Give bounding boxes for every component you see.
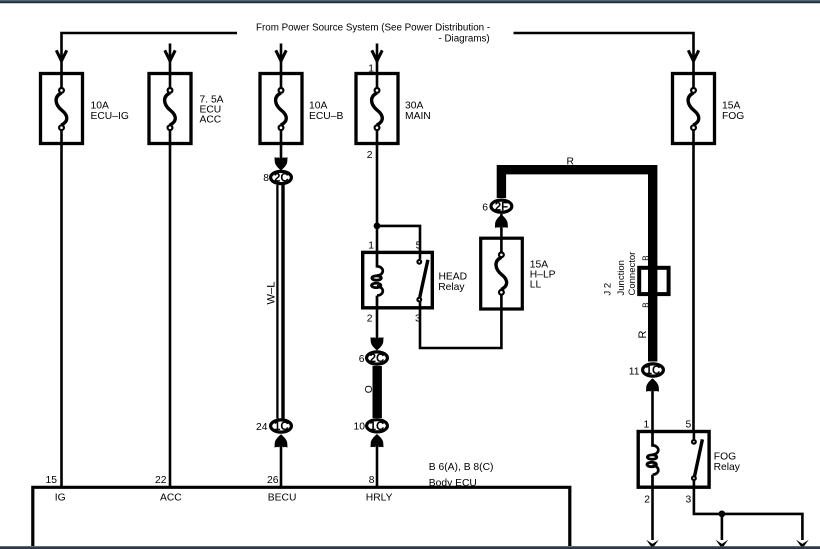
switch <box>419 252 422 259</box>
svg-text:3: 3 <box>686 495 692 506</box>
wire: FOG relay pin 2 down off page <box>651 487 654 540</box>
coil <box>653 432 659 455</box>
coil <box>377 252 383 275</box>
svg-text:B 6(A), B 8(C): B 6(A), B 8(C) <box>429 462 494 473</box>
svg-text:MAIN: MAIN <box>405 111 431 122</box>
wire O: connector 2C to connector 1C <box>373 366 382 418</box>
wire R (thick) through J2 down to connector 1C <box>648 165 657 264</box>
connector 1C pin 11 <box>629 364 664 378</box>
svg-text:B: B <box>641 302 650 307</box>
connector 1C pin 24 <box>256 420 291 433</box>
svg-text:HRLY: HRLY <box>366 492 393 503</box>
svg-text:22: 22 <box>155 475 167 486</box>
fuse F2 7.5A ECU ACC <box>149 74 224 144</box>
wire W-L: connector 2C to connector 1C <box>266 185 283 419</box>
wire ACC: fuse F2 to Body ECU pin 22 <box>169 130 172 487</box>
svg-text:J 2: J 2 <box>603 283 614 296</box>
wire: junction down off page <box>721 514 724 540</box>
svg-text:5: 5 <box>416 240 422 251</box>
svg-text:8: 8 <box>263 173 269 184</box>
fuse 15A H-LP LL <box>481 238 556 309</box>
svg-text:2: 2 <box>367 313 373 324</box>
svg-text:ECU–B: ECU–B <box>309 111 343 122</box>
wire: power feed bus right <box>514 33 694 88</box>
svg-text:Relay: Relay <box>438 282 465 293</box>
switch <box>693 432 696 440</box>
svg-text:ACC: ACC <box>160 492 182 503</box>
svg-text:Body ECU: Body ECU <box>429 478 477 489</box>
connector 1C pin 10 <box>354 420 388 433</box>
fuse F4 30A MAIN <box>356 74 431 162</box>
svg-text:15: 15 <box>46 475 58 486</box>
svg-text:B: B <box>641 255 650 260</box>
svg-text:5: 5 <box>686 419 692 430</box>
svg-text:IG: IG <box>55 492 66 503</box>
svg-text:1: 1 <box>368 240 374 251</box>
svg-text:ECU–IG: ECU–IG <box>91 111 129 122</box>
wire: fuse FOG to FOG relay pin 5 <box>692 130 695 432</box>
wire: power feed bus left <box>62 33 238 88</box>
svg-text:FOG: FOG <box>722 111 744 122</box>
wire: connector 1C to Body ECU pin 26 <box>280 441 283 487</box>
ECU B1 Body ECU <box>33 462 570 546</box>
svg-text:10: 10 <box>354 421 366 432</box>
svg-text:2C: 2C <box>370 353 385 365</box>
svg-text:O: O <box>364 385 375 393</box>
svg-text:6: 6 <box>359 354 365 365</box>
connector 2C pin 8 <box>263 171 291 184</box>
svg-text:8: 8 <box>369 475 375 486</box>
relay U1 HEAD Relay <box>363 240 467 324</box>
svg-text:26: 26 <box>267 475 279 486</box>
junction connector J2 <box>603 252 669 296</box>
svg-text:1C: 1C <box>370 421 385 433</box>
svg-text:R: R <box>637 331 649 339</box>
svg-text:1C: 1C <box>646 365 661 377</box>
wire stub to ECU-B fuse <box>280 44 283 89</box>
svg-text:2F: 2F <box>495 201 508 213</box>
svg-text:LL: LL <box>530 280 542 291</box>
svg-text:11: 11 <box>629 367 640 378</box>
svg-text:- Diagrams): - Diagrams) <box>439 34 490 45</box>
svg-text:1: 1 <box>644 419 650 430</box>
wire: fuse F3 to connector 2C <box>280 130 283 163</box>
svg-text:From Power Source System (See: From Power Source System (See Power Dist… <box>256 23 490 34</box>
wire stub to ECU ACC fuse <box>169 44 172 89</box>
svg-text:ACC: ACC <box>200 114 222 125</box>
svg-text:2C: 2C <box>274 173 289 185</box>
svg-text:HEAD: HEAD <box>439 271 468 282</box>
svg-text:6: 6 <box>482 203 488 214</box>
wire R (thick): connector 2F to J2 junction connector <box>501 170 652 198</box>
node: junction on pin 3 wire <box>719 511 726 518</box>
fuse F3 10A ECU-B <box>260 74 343 144</box>
fuse F5 15A FOG <box>673 74 745 144</box>
wire: fuse F4 pin 2 to HEAD relay pin 1 <box>376 130 379 252</box>
wire IG: fuse F1 to Body ECU pin 15 <box>60 130 63 487</box>
wire HRLY: connector 1C to Body ECU pin 8 <box>376 441 379 487</box>
wire stub to MAIN fuse, pin 1 <box>376 44 379 89</box>
svg-text:Junction: Junction <box>616 260 627 295</box>
wire: connector 1C to FOG relay pin 1 <box>651 385 654 432</box>
wire: fuse H-LP to connector 2F <box>500 214 503 238</box>
wire: branch to HEAD relay pin 5 <box>377 226 420 252</box>
svg-text:R: R <box>567 156 574 167</box>
svg-text:24: 24 <box>256 422 268 433</box>
svg-text:2: 2 <box>644 495 650 506</box>
connector 2C pin 6 <box>359 352 388 365</box>
wire: HEAD relay pin 2 to connector 2C <box>376 308 379 343</box>
svg-text:W–L: W–L <box>266 281 278 304</box>
svg-text:1C: 1C <box>274 421 289 433</box>
wire: FOG relay pin 3 right and down <box>694 487 803 540</box>
relay U2 FOG Relay <box>638 419 741 505</box>
svg-text:Connector: Connector <box>627 252 638 296</box>
svg-text:Relay: Relay <box>714 462 741 473</box>
wire R (thick) segment through J2 box <box>648 263 657 362</box>
wire: HEAD relay pin 3 to fuse H-LP LL <box>420 308 501 348</box>
connector 2F pin 6 <box>482 200 512 214</box>
node: branch to HEAD relay pin 5 <box>374 223 381 230</box>
fuse F1 10A ECU-IG <box>41 74 129 144</box>
svg-text:2: 2 <box>367 150 373 161</box>
svg-text:BECU: BECU <box>268 492 297 503</box>
